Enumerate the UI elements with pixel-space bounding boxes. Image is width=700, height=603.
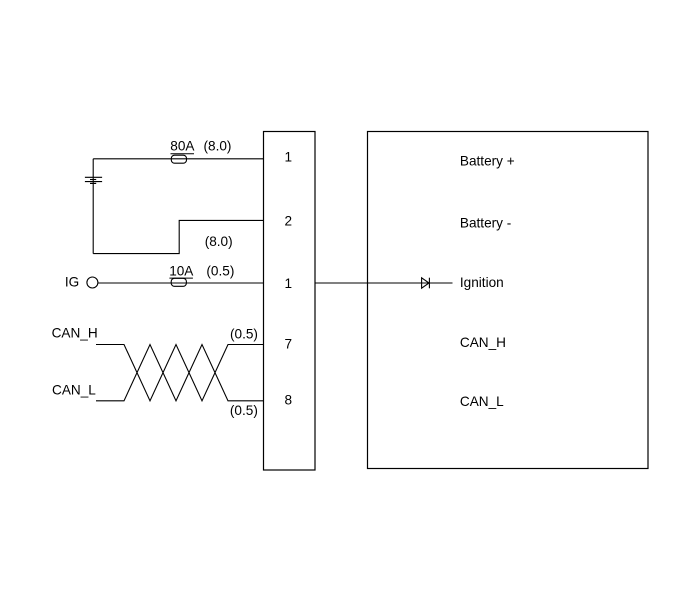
svg-text:CAN_L: CAN_L bbox=[460, 394, 504, 409]
svg-text:IG: IG bbox=[65, 275, 79, 290]
svg-text:(8.0): (8.0) bbox=[205, 234, 233, 249]
svg-text:8: 8 bbox=[285, 393, 293, 408]
svg-text:(0.5): (0.5) bbox=[230, 327, 258, 342]
svg-text:(8.0): (8.0) bbox=[204, 139, 232, 154]
svg-text:1: 1 bbox=[285, 276, 293, 291]
svg-text:Battery -: Battery - bbox=[460, 216, 511, 231]
svg-text:(0.5): (0.5) bbox=[230, 403, 258, 418]
svg-text:80A: 80A bbox=[170, 139, 195, 154]
svg-text:10A: 10A bbox=[169, 264, 194, 279]
svg-text:2: 2 bbox=[285, 214, 293, 229]
svg-text:1: 1 bbox=[285, 150, 293, 165]
svg-text:CAN_H: CAN_H bbox=[52, 326, 98, 341]
svg-text:(0.5): (0.5) bbox=[206, 264, 234, 279]
svg-text:Battery +: Battery + bbox=[460, 154, 515, 169]
svg-text:CAN_L: CAN_L bbox=[52, 383, 96, 398]
svg-text:7: 7 bbox=[285, 337, 293, 352]
svg-text:Ignition: Ignition bbox=[460, 275, 504, 290]
svg-text:CAN_H: CAN_H bbox=[460, 335, 506, 350]
